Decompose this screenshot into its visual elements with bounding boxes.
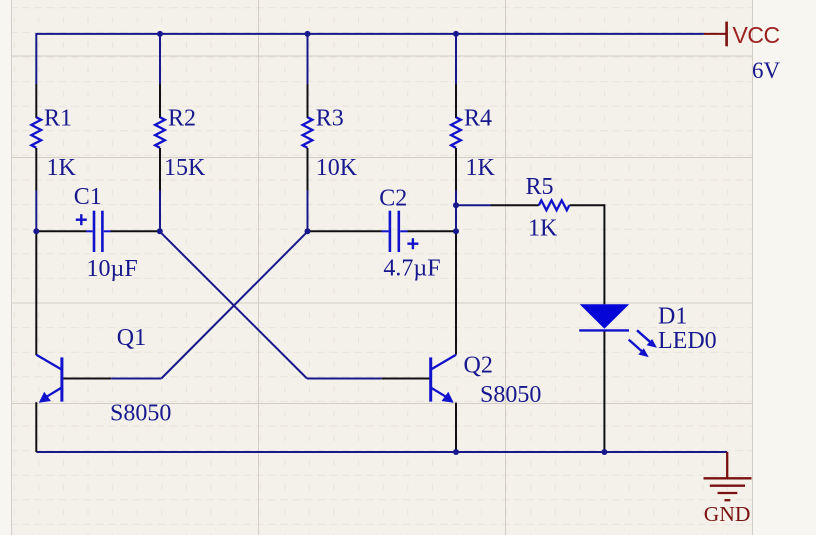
svg-text:10K: 10K [316, 155, 358, 181]
wire R5 to LED corner [570, 204, 605, 206]
svg-text:R4: R4 [464, 106, 492, 132]
svg-text:R3: R3 [316, 106, 344, 132]
node C1/R2 junction [157, 228, 163, 234]
svg-text:15K: 15K [164, 155, 206, 181]
wire R1 top stub [35, 33, 37, 84]
wire top power rail [36, 33, 704, 35]
wire diagonal Q2 base to R2/C1 node [160, 232, 307, 379]
VCC power port [704, 22, 727, 47]
wire C2 node row left [308, 230, 382, 232]
wire LED anode drop [603, 204, 605, 304]
resistor R5 [539, 200, 570, 210]
svg-text:Q2: Q2 [464, 352, 493, 378]
resistor R3 [303, 84, 313, 231]
svg-text:GND: GND [704, 502, 751, 526]
ground symbol GND [704, 452, 752, 500]
wire bottom ground rail [36, 451, 727, 453]
svg-text:6V: 6V [752, 58, 781, 83]
svg-text:S8050: S8050 [480, 382, 541, 408]
svg-text:4.7µF: 4.7µF [383, 256, 440, 282]
wire Q2 emitter to bottom rail [455, 403, 457, 452]
LED emission arrow 1 [637, 330, 657, 348]
svg-text:1K: 1K [47, 155, 77, 181]
wire C2 node row right [407, 230, 456, 232]
svg-text:VCC: VCC [733, 22, 780, 48]
node C2/R4 junction [453, 228, 459, 234]
node Q2 emitter rail junction [453, 449, 459, 455]
wire Q1 emitter to bottom rail [35, 402, 37, 452]
svg-text:C2: C2 [379, 186, 407, 212]
wire diagonal Q1 base to R3/C2 node [161, 232, 307, 379]
capacitor C2 [382, 211, 419, 252]
svg-text:C1: C1 [74, 184, 102, 210]
resistor R4 [451, 84, 461, 205]
wire Q1 base horizontal [63, 378, 111, 380]
svg-text:D1: D1 [658, 303, 687, 329]
svg-text:R1: R1 [44, 106, 72, 132]
wire R4 node to R5 [456, 204, 491, 206]
capacitor C1 [76, 211, 111, 252]
node R1/C1 junction [33, 228, 39, 234]
node R3/C2 junction [305, 228, 311, 234]
svg-text:R5: R5 [526, 174, 554, 200]
resistor R1 [31, 84, 41, 231]
wire R1 node down to Q1 collector [35, 231, 37, 355]
wire R4 node to C2 node [455, 205, 457, 231]
svg-text:R2: R2 [168, 106, 196, 132]
transistor Q1 [36, 355, 63, 403]
wire R2 top stub [159, 33, 161, 84]
svg-text:LED0: LED0 [658, 328, 717, 354]
wire Q2 base horizontal [307, 378, 382, 380]
resistor R2 [155, 84, 165, 231]
wire C1 node row left [36, 230, 86, 232]
transistor Q2 [429, 355, 456, 403]
svg-text:10µF: 10µF [87, 256, 138, 282]
node LED rail junction [601, 449, 607, 455]
wire LED cathode to bottom rail [603, 331, 605, 453]
node top rail R3 junction [305, 31, 311, 37]
wire R3 top stub [307, 33, 309, 84]
svg-text:Q1: Q1 [117, 325, 146, 351]
svg-text:1K: 1K [466, 155, 496, 181]
svg-text:S8050: S8050 [110, 401, 171, 427]
node top rail R2 junction [157, 31, 163, 37]
LED emission arrow 2 [629, 340, 649, 358]
node top rail R4 junction [453, 31, 459, 37]
diode D1 LED [579, 304, 629, 330]
node R4/R5 junction [453, 202, 459, 208]
wire C1 node row right [111, 230, 160, 232]
wire R4 branch down to Q2 collector [455, 231, 457, 354]
wire R4 top stub [455, 33, 457, 84]
svg-text:1K: 1K [528, 215, 558, 241]
